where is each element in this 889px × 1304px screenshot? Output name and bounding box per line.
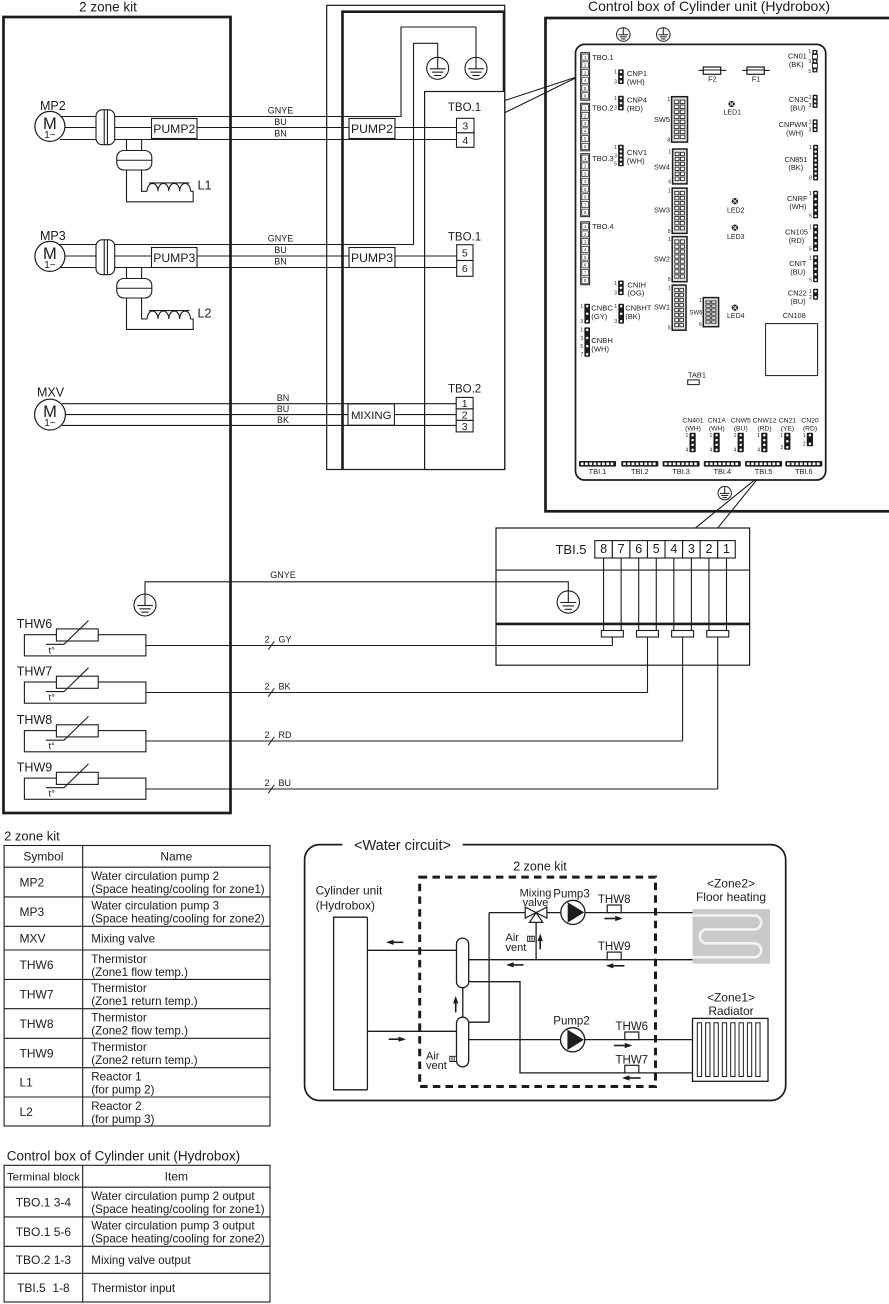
TBO.1 cell 5 xyxy=(457,245,473,261)
svg-text:TBO.1 3-4: TBO.1 3-4 xyxy=(16,1195,72,1209)
THW7 sensor xyxy=(616,1054,649,1073)
svg-text:t°: t° xyxy=(49,741,56,752)
svg-text:LED3: LED3 xyxy=(727,234,745,241)
svg-text:6: 6 xyxy=(462,263,468,275)
svg-text:1: 1 xyxy=(809,191,812,197)
wire GNYE pump2 xyxy=(60,27,476,117)
svg-text:2: 2 xyxy=(264,778,269,788)
svg-text:1: 1 xyxy=(668,237,671,243)
svg-text:2: 2 xyxy=(809,295,812,301)
svg-text:5: 5 xyxy=(809,247,812,253)
svg-text:4: 4 xyxy=(757,448,760,454)
svg-text:THW8: THW8 xyxy=(17,713,52,727)
svg-text:(WH): (WH) xyxy=(786,128,803,137)
wire THW6 xyxy=(146,645,613,647)
svg-text:TBI.5: TBI.5 xyxy=(755,467,773,476)
svg-text:PUMP2: PUMP2 xyxy=(351,122,393,136)
ground (control box right) xyxy=(657,28,671,42)
svg-text:8: 8 xyxy=(600,542,607,556)
svg-text:BU: BU xyxy=(274,117,287,127)
pointer lines white box to PCB TBO.1 xyxy=(505,76,580,113)
svg-text:Thermistor: Thermistor xyxy=(91,982,147,995)
svg-text:THW6: THW6 xyxy=(616,1021,649,1033)
svg-text:SW6: SW6 xyxy=(690,310,704,316)
svg-text:1: 1 xyxy=(614,304,617,310)
svg-text:3: 3 xyxy=(462,120,468,132)
svg-text:CNW5: CNW5 xyxy=(731,417,751,424)
trunk outer thin box xyxy=(327,5,505,469)
svg-text:BN: BN xyxy=(277,393,290,403)
svg-text:1: 1 xyxy=(809,145,812,151)
ground (trunk left) xyxy=(427,57,449,79)
wire GNYE thermistor shield xyxy=(145,582,568,594)
LED3 xyxy=(727,224,745,241)
wire THW7 xyxy=(146,692,648,694)
svg-text:2 zone kit: 2 zone kit xyxy=(513,860,567,874)
wire BK mxv xyxy=(62,424,456,426)
svg-text:(GY): (GY) xyxy=(591,312,608,321)
svg-text:(Space heating/cooling for zon: (Space heating/cooling for zone1) xyxy=(91,883,265,896)
svg-text:LED1: LED1 xyxy=(724,110,742,117)
header connector line + arrow xyxy=(462,988,464,1018)
svg-text:Symbol: Symbol xyxy=(23,850,63,864)
svg-text:THW7: THW7 xyxy=(616,1054,649,1066)
svg-text:PUMP3: PUMP3 xyxy=(153,251,195,265)
svg-text:Reactor 1: Reactor 1 xyxy=(91,1071,141,1084)
svg-text:t°: t° xyxy=(49,693,56,704)
terminal strip TBI.1 xyxy=(579,461,616,476)
svg-text:2: 2 xyxy=(264,635,269,645)
svg-text:3: 3 xyxy=(580,319,583,325)
svg-text:Floor heating: Floor heating xyxy=(696,890,766,904)
svg-text:(for pump 2): (for pump 2) xyxy=(91,1084,154,1097)
svg-text:BN: BN xyxy=(274,257,287,267)
svg-text:(RD): (RD) xyxy=(757,425,771,432)
svg-text:TBO.1: TBO.1 xyxy=(592,53,613,62)
DIP switch SW2 xyxy=(654,237,687,284)
table: 2 zone kit symbols xyxy=(4,846,270,1127)
svg-text:TBO.1: TBO.1 xyxy=(448,102,481,114)
pump capsule MP3 xyxy=(96,240,115,275)
connector CNIH (OG) xyxy=(614,281,624,297)
choke MP2 xyxy=(117,151,152,171)
water circuit outer box xyxy=(305,845,786,1101)
svg-text:TBI.5: TBI.5 xyxy=(555,542,586,557)
LED2 xyxy=(727,198,745,215)
svg-text:CN20: CN20 xyxy=(801,417,819,424)
svg-text:TBI.4: TBI.4 xyxy=(713,467,731,476)
svg-text:1: 1 xyxy=(667,97,670,103)
svg-text:4: 4 xyxy=(462,135,468,147)
TBO.1 cell 3 xyxy=(457,118,475,133)
svg-text:1: 1 xyxy=(780,433,783,439)
svg-text:(Zone2 return temp.): (Zone2 return temp.) xyxy=(91,1054,197,1067)
TBO.1 cell 6 xyxy=(457,261,473,277)
svg-text:2 zone kit: 2 zone kit xyxy=(79,0,137,14)
svg-text:3: 3 xyxy=(614,79,617,85)
svg-text:(for pump 3): (for pump 3) xyxy=(91,1113,154,1126)
svg-text:THW9: THW9 xyxy=(20,1046,54,1060)
svg-text:7: 7 xyxy=(618,542,625,556)
svg-text:5: 5 xyxy=(462,247,468,259)
svg-text:Water circulation pump 2: Water circulation pump 2 xyxy=(91,870,219,883)
terminal block TBO.1 (PCB) xyxy=(581,53,614,100)
svg-text:(RD): (RD) xyxy=(627,104,643,113)
reactor loop L2 wiring xyxy=(127,268,142,279)
reactor loop L1 wiring xyxy=(127,140,142,151)
svg-text:3: 3 xyxy=(808,59,811,65)
svg-text:1: 1 xyxy=(809,225,812,231)
wire GNYE pump3 xyxy=(60,43,438,244)
svg-text:L1: L1 xyxy=(20,1076,34,1090)
terminal block TBO.2 (PCB) xyxy=(581,103,614,151)
thermistor THW7 xyxy=(17,665,146,704)
svg-text:Thermistor: Thermistor xyxy=(91,1012,147,1025)
svg-text:8: 8 xyxy=(668,326,671,332)
svg-text:TBO.1: TBO.1 xyxy=(448,232,481,244)
svg-text:Pump2: Pump2 xyxy=(553,1016,589,1028)
PUMP2 box right xyxy=(349,119,395,139)
svg-text:(RD): (RD) xyxy=(803,425,817,432)
svg-text:MIXING: MIXING xyxy=(351,410,392,422)
svg-text:Control box of Cylinder unit (: Control box of Cylinder unit (Hydrobox) xyxy=(7,1148,240,1163)
svg-text:(WH): (WH) xyxy=(591,344,609,353)
svg-text:PUMP3: PUMP3 xyxy=(351,251,393,265)
svg-text:Mixing valve: Mixing valve xyxy=(91,932,155,945)
DIP switch SW1 xyxy=(654,285,686,332)
svg-text:(Space heating/cooling for zon: (Space heating/cooling for zone2) xyxy=(91,1233,265,1246)
svg-text:vent: vent xyxy=(506,942,527,954)
svg-text:MP3: MP3 xyxy=(40,229,66,243)
ground (control box left) xyxy=(617,28,631,42)
svg-text:THW7: THW7 xyxy=(17,665,52,679)
svg-text:BU: BU xyxy=(279,778,292,788)
svg-text:(Space heating/cooling for zon: (Space heating/cooling for zone2) xyxy=(91,913,265,926)
trunk terminal white box xyxy=(425,92,505,470)
TBI.5 descent wires to thermistor runs xyxy=(611,637,613,646)
THW8 sensor xyxy=(598,894,631,913)
svg-text:TBI.5 1-8: TBI.5 1-8 xyxy=(17,1281,70,1295)
svg-text:(OG): (OG) xyxy=(627,289,644,298)
svg-text:SW2: SW2 xyxy=(654,255,670,264)
svg-text:3: 3 xyxy=(462,421,468,433)
DIP switch SW4 xyxy=(654,149,687,185)
svg-text:3: 3 xyxy=(614,319,617,325)
connector CNBC (GY) xyxy=(580,304,590,325)
svg-text:MP3: MP3 xyxy=(20,905,45,919)
svg-text:THW6: THW6 xyxy=(17,617,52,631)
wire BN mxv xyxy=(62,403,456,405)
terminal strip TBI.5 xyxy=(745,461,782,476)
svg-text:CN108: CN108 xyxy=(783,311,806,320)
svg-text:Pump3: Pump3 xyxy=(553,888,589,900)
terminal strip TBI.2 xyxy=(621,461,658,476)
connector CN105 (RD) xyxy=(809,224,818,253)
DIP switch SW3 xyxy=(654,188,687,235)
connector CNPWM (WH) xyxy=(809,119,818,133)
svg-text:TBI.3: TBI.3 xyxy=(672,467,690,476)
connector CNP4 (RD) xyxy=(614,96,624,112)
svg-text:6: 6 xyxy=(668,179,671,185)
svg-text:5: 5 xyxy=(808,69,811,75)
pump capsule MP2 xyxy=(96,110,115,145)
svg-text:7: 7 xyxy=(580,352,583,358)
svg-text:L1: L1 xyxy=(198,179,212,193)
connector CNV1 (WH) xyxy=(614,145,624,168)
svg-text:(Hydrobox): (Hydrobox) xyxy=(316,898,375,912)
svg-text:(WH): (WH) xyxy=(627,157,645,166)
svg-text:8: 8 xyxy=(809,176,812,182)
arrow left on top pipe xyxy=(386,940,403,945)
PUMP3 box left xyxy=(152,248,198,268)
svg-text:5: 5 xyxy=(580,344,583,350)
reactor L2 xyxy=(147,311,190,319)
svg-text:Water circulation pump 2 outpu: Water circulation pump 2 output xyxy=(91,1190,255,1203)
svg-text:(Zone1 flow temp.): (Zone1 flow temp.) xyxy=(91,966,188,979)
TBI.5 inner thin line xyxy=(496,569,750,571)
svg-text:(BU): (BU) xyxy=(790,267,805,276)
svg-text:2: 2 xyxy=(705,542,712,556)
svg-text:TBI.2: TBI.2 xyxy=(631,467,649,476)
zone2 return line xyxy=(469,959,693,961)
svg-text:4: 4 xyxy=(670,542,677,556)
svg-text:8: 8 xyxy=(668,229,671,235)
TBI.5 inner thick line xyxy=(496,623,750,626)
svg-text:(Zone1 return temp.): (Zone1 return temp.) xyxy=(91,995,197,1008)
svg-text:4: 4 xyxy=(686,448,689,454)
svg-text:Name: Name xyxy=(160,850,192,864)
svg-text:4: 4 xyxy=(710,448,713,454)
svg-text:<Water circuit>: <Water circuit> xyxy=(354,838,451,854)
connector CNIT (BU) xyxy=(809,255,818,283)
svg-text:(WH): (WH) xyxy=(709,425,725,432)
svg-text:Thermistor: Thermistor xyxy=(91,953,147,966)
DIP switch SW5 xyxy=(654,97,688,144)
svg-text:Terminal block: Terminal block xyxy=(7,1172,80,1184)
PUMP2 box left xyxy=(152,119,198,139)
zone2 feed riser xyxy=(469,913,489,1023)
table: control box terminal blocks xyxy=(4,1165,270,1302)
svg-text:Radiator: Radiator xyxy=(708,1004,753,1018)
svg-text:THW9: THW9 xyxy=(598,941,631,953)
svg-text:6: 6 xyxy=(635,542,642,556)
svg-text:1: 1 xyxy=(580,328,583,334)
svg-text:1: 1 xyxy=(723,542,730,556)
svg-text:THW8: THW8 xyxy=(20,1017,54,1031)
svg-text:GNYE: GNYE xyxy=(268,106,294,116)
svg-text:GNYE: GNYE xyxy=(270,570,296,580)
connector CNBH (WH) xyxy=(580,327,590,358)
svg-text:3: 3 xyxy=(614,290,617,296)
svg-text:Reactor 2: Reactor 2 xyxy=(91,1100,141,1113)
svg-text:(WH): (WH) xyxy=(685,425,701,432)
svg-text:vent: vent xyxy=(426,1060,447,1072)
ground (trunk right) xyxy=(465,57,487,79)
svg-text:1: 1 xyxy=(462,398,468,410)
svg-text:1: 1 xyxy=(699,298,702,304)
svg-text:1: 1 xyxy=(614,281,617,287)
svg-text:1: 1 xyxy=(614,145,617,151)
ground (TBI.5 box) xyxy=(557,591,579,613)
svg-text:(RD): (RD) xyxy=(789,236,805,245)
svg-text:(BU): (BU) xyxy=(790,104,805,113)
PUMP3 box right xyxy=(349,248,395,268)
wire THW9 xyxy=(146,788,718,790)
cylinder unit shape xyxy=(334,917,368,1090)
upper header xyxy=(457,938,469,988)
THW9 sensor xyxy=(598,941,631,959)
svg-text:4: 4 xyxy=(734,448,737,454)
trunk inner thick box xyxy=(343,12,505,470)
svg-text:(Zone2 flow temp.): (Zone2 flow temp.) xyxy=(91,1025,188,1038)
svg-text:1: 1 xyxy=(710,433,713,439)
svg-text:<Zone1>: <Zone1> xyxy=(707,991,755,1005)
svg-text:LED4: LED4 xyxy=(727,313,745,320)
PCB outline xyxy=(576,44,826,480)
svg-text:Water circulation pump 3: Water circulation pump 3 xyxy=(91,900,219,913)
svg-text:CN1A: CN1A xyxy=(708,417,727,424)
connector CN01 (BK) xyxy=(808,49,817,75)
ground (control box bottom) xyxy=(718,486,731,499)
svg-text:(BK): (BK) xyxy=(625,312,641,321)
svg-text:SW3: SW3 xyxy=(654,206,670,215)
pointer lines PCB TBI.5 to detail box xyxy=(696,475,761,528)
svg-text:THW9: THW9 xyxy=(17,761,52,775)
TBI.5 detail box xyxy=(496,528,750,665)
svg-text:1: 1 xyxy=(757,433,760,439)
svg-text:Cylinder unit: Cylinder unit xyxy=(316,883,383,897)
svg-text:(BU): (BU) xyxy=(790,297,805,306)
connector CN22 (BU) xyxy=(809,289,818,301)
svg-text:TAB1: TAB1 xyxy=(688,370,706,379)
svg-text:MP2: MP2 xyxy=(20,875,45,889)
wire BU mxv xyxy=(63,414,456,416)
svg-text:8: 8 xyxy=(668,277,671,283)
svg-text:t°: t° xyxy=(49,645,56,656)
reactor L1 xyxy=(147,183,190,191)
svg-text:2: 2 xyxy=(264,730,269,740)
bottom pipe to header xyxy=(367,1030,456,1032)
svg-text:6: 6 xyxy=(699,322,702,328)
DIP switch SW6 xyxy=(690,298,719,329)
svg-text:MXV: MXV xyxy=(20,931,46,945)
wire BU pump3 xyxy=(62,255,457,257)
svg-text:1: 1 xyxy=(809,256,812,262)
svg-text:TBO.1 5-6: TBO.1 5-6 xyxy=(16,1225,72,1239)
zone1 return line xyxy=(469,982,693,1073)
svg-text:F2: F2 xyxy=(708,74,717,83)
MIXING box xyxy=(348,404,394,425)
TBO.2 cell 3 xyxy=(456,420,473,433)
connector CNP1 (WH) xyxy=(614,69,624,85)
svg-text:F1: F1 xyxy=(752,74,761,83)
svg-text:Mixing valve output: Mixing valve output xyxy=(91,1254,191,1267)
svg-text:2: 2 xyxy=(462,409,468,421)
svg-text:BU: BU xyxy=(277,404,290,414)
svg-text:SW4: SW4 xyxy=(654,163,670,172)
svg-text:1: 1 xyxy=(668,286,671,292)
TBO.2 cell 1 xyxy=(456,397,473,410)
svg-text:3: 3 xyxy=(614,153,617,159)
svg-text:1: 1 xyxy=(614,96,617,102)
svg-text:5: 5 xyxy=(809,214,812,220)
fuse F2 xyxy=(699,67,727,83)
svg-text:L2: L2 xyxy=(20,1105,34,1119)
connector CN851 (BK) xyxy=(809,145,818,182)
svg-text:BK: BK xyxy=(277,415,289,425)
svg-text:5: 5 xyxy=(653,542,660,556)
ground (2 zone kit) xyxy=(134,594,156,616)
TBO.2 cell 2 xyxy=(456,409,473,422)
thermistor THW9 xyxy=(17,761,146,800)
svg-text:TBO.3: TBO.3 xyxy=(592,154,613,163)
svg-text:TBI.1: TBI.1 xyxy=(589,467,607,476)
svg-text:1: 1 xyxy=(803,433,806,439)
svg-text:(BU): (BU) xyxy=(734,425,748,432)
terminal strip TBI.3 xyxy=(663,461,700,476)
zone1 flow line xyxy=(469,1039,693,1041)
svg-text:BK: BK xyxy=(279,682,291,692)
svg-text:(YE): (YE) xyxy=(781,425,795,432)
svg-text:BN: BN xyxy=(274,129,287,139)
svg-text:<Zone2>: <Zone2> xyxy=(707,876,755,890)
svg-text:MXV: MXV xyxy=(37,386,65,400)
terminal strip TBI.4 xyxy=(704,461,741,476)
svg-text:1: 1 xyxy=(614,70,617,76)
zone2 flow line xyxy=(489,912,692,914)
svg-text:3: 3 xyxy=(688,542,695,556)
svg-text:2: 2 xyxy=(264,682,269,692)
svg-text:(WH): (WH) xyxy=(627,78,645,87)
LED1 xyxy=(724,101,742,117)
2 zone kit dashed box xyxy=(420,877,656,1086)
svg-text:5: 5 xyxy=(809,278,812,284)
svg-text:3: 3 xyxy=(580,336,583,342)
svg-text:1: 1 xyxy=(580,304,583,310)
terminal block TBO.4 (PCB) xyxy=(581,222,614,285)
svg-text:BU: BU xyxy=(274,245,287,255)
2 zone kit enclosure xyxy=(4,17,231,813)
TBI.5 cell drop wires xyxy=(603,558,605,631)
THW6 sensor xyxy=(616,1021,649,1040)
arrow left on zone2 return xyxy=(506,962,523,967)
svg-text:TBI.6: TBI.6 xyxy=(795,467,813,476)
TBI.5 terminal cells 8..1 xyxy=(595,541,613,558)
top pipe to header xyxy=(367,949,456,951)
svg-text:1~: 1~ xyxy=(44,130,56,141)
terminal block TBO.3 (PCB) xyxy=(581,154,614,217)
svg-text:THW8: THW8 xyxy=(598,894,631,906)
svg-text:CNW12: CNW12 xyxy=(753,417,777,424)
svg-text:1: 1 xyxy=(809,120,812,126)
svg-text:SW5: SW5 xyxy=(654,115,670,124)
svg-text:8: 8 xyxy=(667,138,670,144)
svg-text:GNYE: GNYE xyxy=(268,234,294,244)
svg-text:2 zone kit: 2 zone kit xyxy=(4,829,60,844)
thermistor THW8 xyxy=(17,713,146,752)
thermistor THW6 xyxy=(17,617,146,656)
wire BN pump3 xyxy=(60,267,457,269)
wire BU pump2 xyxy=(62,127,457,129)
svg-text:CN21: CN21 xyxy=(779,417,797,424)
svg-text:PUMP2: PUMP2 xyxy=(153,122,195,136)
svg-text:1: 1 xyxy=(808,49,811,55)
svg-text:5: 5 xyxy=(614,162,617,168)
wire THW8 xyxy=(146,740,683,742)
svg-text:LED2: LED2 xyxy=(727,208,745,215)
svg-text:CN401: CN401 xyxy=(682,417,703,424)
svg-text:3: 3 xyxy=(809,127,812,133)
